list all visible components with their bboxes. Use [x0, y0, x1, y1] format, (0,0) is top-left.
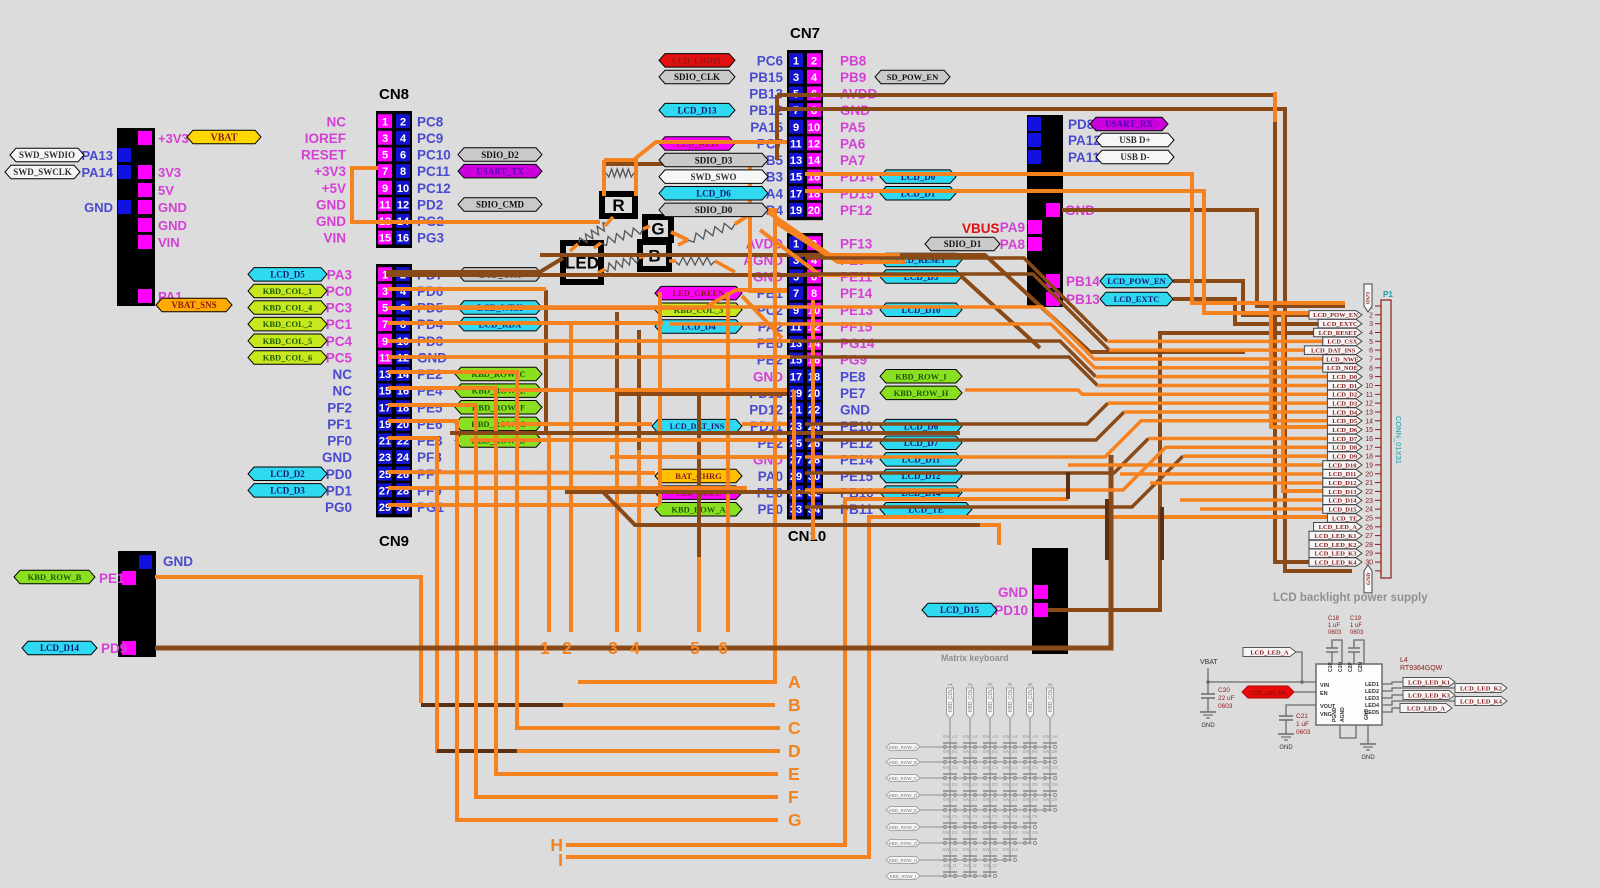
resistor G-LED — [601, 228, 643, 245]
svg-text:3: 3 — [1369, 321, 1373, 328]
svg-text:12: 12 — [808, 138, 820, 150]
flag GND — [1364, 565, 1372, 593]
svg-text:C18: C18 — [1328, 616, 1340, 622]
flag USART_RX — [1090, 117, 1168, 131]
svg-text:VIN: VIN — [323, 231, 346, 246]
wire — [566, 517, 1327, 857]
wire — [1286, 705, 1316, 716]
svg-text:LCD_LIGHT: LCD_LIGHT — [672, 55, 722, 65]
switch SW_A6 — [1043, 745, 1046, 748]
junction — [989, 875, 992, 878]
wire — [388, 339, 792, 343]
wire — [1160, 507, 1164, 560]
flag SDIO_D1 — [925, 237, 1000, 251]
wire — [1096, 375, 1328, 379]
svg-text:SW_H1: SW_H1 — [942, 847, 958, 852]
wire — [805, 174, 1345, 303]
switch SW_C1 — [943, 776, 946, 779]
svg-text:SW_C5: SW_C5 — [1022, 765, 1038, 770]
svg-text:PE11: PE11 — [840, 270, 873, 285]
svg-text:KBD_ROW_H: KBD_ROW_H — [889, 858, 918, 863]
svg-text:LCD_RESET: LCD_RESET — [1319, 330, 1358, 337]
svg-text:KBD_COL_2: KBD_COL_2 — [263, 319, 313, 329]
svg-text:NC: NC — [327, 114, 347, 129]
pin 8 P1 — [1375, 367, 1381, 369]
svg-text:KBD_COL_1: KBD_COL_1 — [948, 683, 954, 712]
connector J1 left morpho block — [117, 128, 155, 306]
flag LCD_D6r — [880, 419, 962, 433]
pin pad — [138, 165, 152, 179]
wire — [1108, 401, 1328, 405]
switch SW_E5 — [1023, 808, 1026, 811]
svg-text:GND: GND — [1366, 573, 1372, 585]
flag KBD_ROW_B — [886, 759, 920, 766]
switch SW_F4 — [1003, 825, 1006, 828]
flag LCD_TE — [1327, 514, 1362, 523]
wire — [388, 321, 663, 325]
svg-text:F: F — [788, 787, 799, 807]
ground — [1200, 711, 1216, 713]
switch SW_B1 — [943, 760, 946, 763]
wire — [388, 290, 787, 308]
resistor right-B — [675, 257, 715, 265]
junction — [1009, 859, 1012, 862]
resistor R-LED — [579, 223, 608, 243]
junction — [989, 761, 992, 764]
wire — [605, 217, 613, 226]
svg-text:USART_RX: USART_RX — [1105, 119, 1153, 129]
pin pad — [1046, 274, 1060, 288]
wire — [920, 777, 1050, 779]
svg-text:SW_E6: SW_E6 — [1042, 797, 1058, 802]
flag LCD_EXTC — [1318, 319, 1362, 328]
svg-text:SW_B1: SW_B1 — [942, 749, 958, 754]
svg-text:PD6: PD6 — [417, 284, 444, 299]
wire — [1068, 463, 1323, 467]
switch SW_D3 — [983, 793, 986, 796]
svg-text:LCD_DAT_INS: LCD_DAT_INS — [1311, 347, 1356, 354]
wire — [669, 259, 676, 263]
svg-text:KBD_COL_6: KBD_COL_6 — [263, 352, 313, 362]
wire — [544, 290, 548, 433]
svg-text:GND: GND — [753, 369, 783, 384]
connector CN9 — [376, 264, 412, 517]
svg-text:C1N: C1N — [1338, 662, 1344, 672]
wire — [605, 162, 680, 166]
wire — [566, 499, 1068, 845]
connector CN7 — [787, 50, 823, 220]
svg-text:1: 1 — [382, 116, 388, 128]
flag SDIO_CMD — [458, 198, 542, 212]
svg-text:SW_A1: SW_A1 — [942, 734, 958, 739]
svg-text:LCD_LED_K3: LCD_LED_K3 — [1315, 551, 1358, 558]
flag KBD_ROW_D — [455, 434, 542, 448]
ground — [1278, 733, 1294, 735]
svg-text:LCD_D9: LCD_D9 — [1332, 453, 1358, 460]
flag LCD_LED_K2 — [1455, 684, 1507, 693]
svg-text:LCD_D0: LCD_D0 — [1332, 374, 1357, 381]
pin 19 P1 — [1375, 464, 1381, 466]
switch SW_I3 — [983, 874, 986, 877]
wire — [421, 703, 563, 707]
svg-text:I: I — [558, 850, 563, 870]
flag KBD_COL_3 — [987, 688, 994, 719]
wire — [437, 749, 517, 753]
svg-text:PA3: PA3 — [327, 267, 353, 282]
pin 9 P1 — [1375, 376, 1381, 378]
pin pad — [1028, 117, 1041, 131]
capacitor C18 — [1331, 652, 1333, 664]
svg-text:RESET: RESET — [301, 148, 347, 163]
flag LCD_RESET — [1314, 328, 1362, 337]
svg-text:GND: GND — [1201, 723, 1215, 729]
junction — [1029, 809, 1032, 812]
svg-text:PC12: PC12 — [417, 181, 451, 196]
wire — [1097, 384, 1327, 388]
wire — [1173, 299, 1318, 324]
svg-text:LCD_D2: LCD_D2 — [1332, 392, 1357, 399]
switch SW_C2 — [963, 776, 966, 779]
svg-text:GND: GND — [322, 450, 352, 465]
svg-text:PE13: PE13 — [840, 303, 874, 318]
pin pad — [138, 183, 152, 197]
wire — [617, 392, 787, 396]
wire — [1296, 652, 1302, 682]
svg-text:VBAT_SNS: VBAT_SNS — [171, 300, 216, 310]
svg-text:KBD_ROW_I: KBD_ROW_I — [890, 874, 917, 879]
svg-text:16: 16 — [397, 233, 409, 245]
flag LCD_D14 — [1323, 496, 1362, 505]
flag LCD_D12 — [1323, 478, 1362, 487]
svg-text:SW_E5: SW_E5 — [1022, 797, 1038, 802]
wire — [388, 355, 792, 359]
svg-text:KBD_ROW_A: KBD_ROW_A — [889, 745, 917, 750]
switch SW_I2 — [963, 874, 966, 877]
svg-text:PB15: PB15 — [749, 70, 783, 85]
capacitor C20 — [1207, 682, 1209, 694]
flag SDIO_D3 — [659, 153, 768, 167]
svg-text:PD9: PD9 — [101, 641, 127, 656]
svg-text:1 uF: 1 uF — [1296, 721, 1309, 728]
wire — [920, 761, 1050, 763]
svg-text:LED1: LED1 — [1365, 682, 1379, 688]
svg-text:PB6: PB6 — [757, 336, 784, 351]
switch SW_H4 — [1003, 858, 1006, 861]
svg-text:LCD_D5: LCD_D5 — [270, 270, 305, 280]
flag KBD_ROW_G — [886, 840, 920, 847]
svg-text:7: 7 — [793, 105, 799, 117]
flag KBD_ROW_A — [655, 503, 742, 517]
svg-text:KBD_ROW_B: KBD_ROW_B — [28, 572, 82, 582]
wire — [155, 577, 421, 703]
svg-text:SW_D1: SW_D1 — [942, 782, 958, 787]
svg-text:18: 18 — [1365, 454, 1373, 461]
flag SD_POW_EN — [875, 70, 950, 84]
flag LCD_DAT_INS — [652, 419, 742, 433]
pin 23 P1 — [1375, 499, 1381, 501]
svg-text:GND: GND — [316, 214, 346, 229]
svg-text:PA14: PA14 — [81, 165, 113, 180]
flag USB_D+ — [1096, 133, 1174, 147]
svg-text:SW_H3: SW_H3 — [982, 847, 998, 852]
svg-text:SW_A5: SW_A5 — [1022, 734, 1038, 739]
svg-text:LED4: LED4 — [1365, 703, 1380, 709]
pin 29 P1 — [1375, 552, 1381, 554]
flag VBAT_SNS — [156, 298, 232, 312]
svg-text:PF13: PF13 — [840, 236, 873, 251]
wire — [155, 455, 1111, 648]
svg-text:PF15: PF15 — [840, 319, 873, 334]
svg-text:8: 8 — [1369, 365, 1373, 372]
pin 10 P1 — [1375, 385, 1381, 387]
flag LCD_POW_EN — [1309, 311, 1362, 320]
pin 7 P1 — [1375, 358, 1381, 360]
wire — [1283, 313, 1323, 491]
junction — [1029, 746, 1032, 749]
svg-text:LCD_D4: LCD_D4 — [1332, 409, 1358, 416]
flag SDIO_CLK — [659, 70, 735, 84]
svg-text:8: 8 — [811, 105, 817, 117]
svg-text:LCD_LED_A: LCD_LED_A — [1407, 705, 1446, 712]
junction — [1009, 777, 1012, 780]
svg-text:13: 13 — [1365, 409, 1373, 416]
flag LCD_D5 — [248, 268, 327, 282]
wire — [1062, 210, 1345, 306]
svg-text:PC8: PC8 — [417, 114, 444, 129]
junction — [949, 761, 952, 764]
svg-text:5V: 5V — [158, 183, 174, 198]
svg-text:SW_B6: SW_B6 — [1042, 749, 1058, 754]
flag LCD_EXTC — [1100, 292, 1173, 306]
svg-text:SW_E3: SW_E3 — [982, 797, 998, 802]
svg-text:SW_G1: SW_G1 — [942, 830, 958, 835]
svg-text:2: 2 — [811, 55, 817, 67]
flag KBD_COL_1 — [947, 688, 954, 719]
svg-text:19: 19 — [1365, 462, 1373, 469]
svg-text:PD0: PD0 — [326, 467, 352, 482]
flag KBD_COL_1 — [248, 284, 327, 298]
junction — [1009, 761, 1012, 764]
svg-text:17: 17 — [1365, 445, 1373, 452]
svg-text:GND: GND — [1361, 755, 1375, 761]
svg-text:LCD_LED_K1: LCD_LED_K1 — [1315, 533, 1357, 540]
svg-text:SWD_SWCLK: SWD_SWCLK — [13, 167, 72, 177]
svg-text:PGND: PGND — [1332, 707, 1338, 722]
switch SW_E3 — [983, 808, 986, 811]
junction — [989, 777, 992, 780]
pin 1 P1 — [1375, 305, 1381, 307]
flag LCD_D15 — [1323, 505, 1362, 514]
svg-text:LCD_LED_K3: LCD_LED_K3 — [1408, 692, 1451, 699]
flag LCD_LED_K1 — [1309, 531, 1362, 540]
flag KBD_COL_2 — [248, 317, 327, 331]
junction — [949, 809, 952, 812]
svg-text:KBD_ROW_I: KBD_ROW_I — [895, 371, 947, 381]
flag LCD_D5 — [1327, 417, 1362, 426]
svg-text:LCD_D15: LCD_D15 — [940, 605, 980, 615]
flag LED_RED — [659, 137, 735, 151]
pin pad — [118, 165, 131, 179]
wire — [388, 438, 780, 751]
svg-text:LCD_D3: LCD_D3 — [270, 486, 305, 496]
svg-text:9: 9 — [382, 183, 388, 195]
svg-text:GND: GND — [316, 197, 346, 212]
switch SW_G5 — [1023, 841, 1026, 844]
switch SW_D6 — [1043, 793, 1046, 796]
flag LED_GREEN — [655, 286, 742, 300]
wire — [805, 412, 1124, 440]
svg-text:KBD_COL_4: KBD_COL_4 — [263, 303, 313, 313]
flag LCD_D6 — [659, 187, 768, 201]
flag LCD_CSX — [458, 268, 542, 282]
wire — [805, 191, 1340, 313]
svg-text:CN9: CN9 — [379, 533, 409, 550]
svg-text:15: 15 — [379, 233, 391, 245]
svg-text:SDIO_D1: SDIO_D1 — [944, 239, 982, 249]
svg-text:LCD_D6: LCD_D6 — [1332, 427, 1358, 434]
svg-text:3: 3 — [382, 133, 388, 145]
IC U4 RT9364GQW — [1316, 664, 1382, 725]
flag VBAT — [187, 130, 261, 144]
flag USB_D- — [1096, 150, 1174, 164]
switch SW_G4 — [1003, 841, 1006, 844]
junction — [969, 809, 972, 812]
svg-text:PC10: PC10 — [417, 148, 451, 163]
svg-text:PC0: PC0 — [326, 284, 352, 299]
svg-text:SW_G3: SW_G3 — [982, 830, 998, 835]
junction — [989, 842, 992, 845]
junction — [949, 875, 952, 878]
svg-text:24: 24 — [397, 452, 410, 464]
flag KBD_ROW_C — [886, 775, 920, 782]
flag LCD_LED_A — [1400, 704, 1452, 713]
pin pad GND — [139, 555, 152, 569]
svg-text:26: 26 — [1365, 524, 1373, 531]
svg-text:SDIO_CMD: SDIO_CMD — [476, 200, 525, 210]
flag LCD_LIGHT — [659, 54, 735, 68]
pin pad — [1028, 133, 1041, 147]
wire — [1120, 472, 1323, 476]
switch SW_D1 — [943, 793, 946, 796]
svg-text:PF12: PF12 — [840, 203, 872, 218]
junction — [949, 826, 952, 829]
wire — [671, 232, 688, 240]
wire — [1066, 472, 1070, 499]
flag LCD_DAT_INS — [1304, 346, 1362, 355]
svg-text:LCD_LED_K4: LCD_LED_K4 — [1315, 559, 1358, 566]
svg-text:PB14: PB14 — [1066, 274, 1100, 289]
svg-text:VBAT: VBAT — [210, 133, 237, 144]
junction — [949, 794, 952, 797]
wire — [790, 357, 1097, 385]
svg-text:PE4: PE4 — [417, 384, 443, 399]
svg-text:LCD_D7: LCD_D7 — [1332, 436, 1358, 443]
flag KBD_ROW_A — [886, 744, 920, 751]
svg-text:SW_D4: SW_D4 — [1002, 782, 1018, 787]
pin 18 P1 — [1375, 455, 1381, 457]
wire — [768, 212, 900, 255]
svg-text:4: 4 — [1369, 330, 1373, 337]
svg-text:4: 4 — [811, 72, 818, 84]
svg-text:G: G — [788, 810, 802, 830]
wire — [615, 312, 619, 433]
svg-text:LCD_D6: LCD_D6 — [696, 189, 731, 199]
svg-text:PD12: PD12 — [749, 403, 783, 418]
wire — [1200, 507, 1323, 511]
wire — [760, 230, 960, 275]
svg-text:A: A — [788, 672, 801, 692]
svg-text:SD_POW_EN: SD_POW_EN — [887, 72, 939, 82]
svg-text:KBD_COL_5: KBD_COL_5 — [1028, 683, 1034, 712]
switch SW_B3 — [983, 760, 986, 763]
flag LCD_D3 — [1327, 399, 1362, 408]
wire — [569, 324, 573, 632]
svg-text:13: 13 — [790, 155, 802, 167]
svg-text:PF0: PF0 — [327, 434, 352, 449]
svg-text:LCD_D15: LCD_D15 — [1328, 506, 1357, 513]
svg-text:C2P: C2P — [1348, 662, 1354, 672]
svg-text:24: 24 — [1365, 507, 1373, 514]
pin pad — [138, 200, 152, 214]
svg-text:C19: C19 — [1350, 616, 1362, 622]
wire — [658, 292, 662, 505]
junction — [1206, 680, 1210, 684]
flag LCD_D7r — [880, 436, 962, 450]
switch SW_E4 — [1003, 808, 1006, 811]
pin pad — [1028, 150, 1041, 164]
switch SW_G3 — [983, 841, 986, 844]
svg-text:LCD backlight power supply: LCD backlight power supply — [1273, 592, 1428, 604]
svg-text:PG3: PG3 — [417, 231, 445, 246]
junction — [969, 777, 972, 780]
wire — [742, 296, 782, 338]
junction — [1009, 746, 1012, 749]
wire — [715, 261, 735, 272]
junction — [969, 842, 972, 845]
pin 3 P1 — [1375, 323, 1381, 325]
svg-text:KBD_COL_5: KBD_COL_5 — [263, 336, 313, 346]
switch SW_F2 — [963, 825, 966, 828]
wire — [792, 390, 796, 520]
flag KBD_ROW_B — [14, 570, 95, 584]
svg-text:PA13: PA13 — [81, 148, 113, 163]
flag KBD_COL_4 — [248, 301, 327, 315]
flag BAT_CHRG — [655, 469, 742, 483]
svg-text:SW_D3: SW_D3 — [982, 782, 998, 787]
flag SWD_SWDIO — [10, 148, 84, 162]
flag LCD_D10 — [1323, 461, 1362, 470]
flag LCD_D2 — [1327, 390, 1362, 399]
svg-text:SDIO_D0: SDIO_D0 — [695, 205, 733, 215]
svg-text:PC1: PC1 — [326, 317, 353, 332]
junction — [949, 746, 952, 749]
wire — [547, 433, 551, 632]
wire — [726, 292, 730, 632]
flag LCD_D3 — [248, 484, 327, 498]
svg-text:28: 28 — [1365, 542, 1373, 549]
svg-text:9: 9 — [793, 122, 799, 134]
svg-text:3: 3 — [608, 638, 618, 658]
svg-text:3: 3 — [382, 286, 388, 298]
flag LCD_LED_K3 — [1309, 549, 1362, 558]
flag LCD_D14f — [880, 486, 962, 500]
svg-text:6: 6 — [1369, 348, 1373, 355]
wire — [388, 287, 546, 291]
pin 31 P1 — [1375, 570, 1381, 572]
svg-text:GND: GND — [158, 200, 187, 215]
svg-text:SW_G4: SW_G4 — [1002, 830, 1018, 835]
svg-text:PC5: PC5 — [326, 350, 353, 365]
